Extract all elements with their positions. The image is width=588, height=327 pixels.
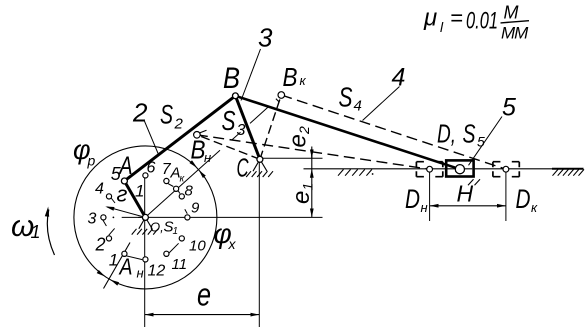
stub on position 9 bbox=[185, 209, 188, 214]
svg-text:l: l bbox=[440, 19, 444, 35]
leader for link 3 label bbox=[241, 49, 261, 101]
point D_n bbox=[427, 166, 433, 172]
svg-text:12: 12 bbox=[148, 263, 166, 280]
svg-text:6: 6 bbox=[147, 160, 156, 177]
svg-text:н: н bbox=[204, 150, 211, 165]
svg-text:н: н bbox=[137, 266, 144, 281]
extension line from D_n bbox=[429, 169, 431, 221]
dimension e1 between guide axis and O axis bbox=[311, 169, 313, 218]
extension line from D_k bbox=[505, 169, 507, 221]
svg-text:4: 4 bbox=[392, 64, 406, 92]
tie A_k to position 8 bbox=[178, 191, 180, 194]
dashed extreme link 4 position B_n-D_n bbox=[197, 135, 430, 169]
svg-text:е: е bbox=[197, 277, 211, 313]
label e2 rotated bbox=[285, 126, 313, 148]
ray O-A_k extended toward B_k (extreme position construction line) bbox=[147, 150, 221, 216]
svg-text:г: г bbox=[117, 182, 128, 207]
svg-text:р: р bbox=[87, 153, 96, 169]
svg-text:S: S bbox=[463, 119, 476, 149]
svg-text:4: 4 bbox=[354, 98, 362, 115]
fixed pivot support at C bbox=[253, 159, 260, 171]
ground hatching on guide left wall bbox=[338, 169, 344, 175]
radius r arrow from O bbox=[107, 207, 145, 218]
point D_k bbox=[503, 166, 509, 172]
svg-text:4: 4 bbox=[95, 181, 104, 198]
pin joint A (position 5) bbox=[121, 178, 127, 184]
omega_1 rotation direction arc bbox=[47, 210, 54, 256]
svg-text:0.01: 0.01 bbox=[466, 8, 498, 35]
pin joint D on slider bbox=[455, 165, 464, 174]
leader for link 4 label bbox=[363, 87, 400, 121]
phi_x arc arrowhead at A_n ray bbox=[110, 280, 119, 286]
svg-text:S: S bbox=[339, 82, 353, 113]
label e1 rotated bbox=[288, 183, 316, 204]
svg-text:х: х bbox=[228, 236, 237, 252]
svg-text:3: 3 bbox=[237, 122, 246, 139]
svg-text:7: 7 bbox=[162, 161, 172, 178]
stub on position 4 bbox=[110, 197, 115, 204]
tick on B_n bbox=[200, 130, 207, 133]
svg-text:В: В bbox=[283, 62, 298, 92]
svg-text:1: 1 bbox=[109, 251, 118, 270]
guide axis visible inside slider bbox=[448, 168, 473, 170]
svg-text:М: М bbox=[504, 3, 519, 23]
pin joint O bbox=[142, 214, 148, 220]
crank position circles 1-12 bbox=[185, 215, 190, 220]
dashed extreme link 4 position B_k-D_k bbox=[281, 95, 506, 169]
stub on position 3 bbox=[103, 220, 107, 226]
svg-text:А: А bbox=[118, 254, 133, 280]
svg-text:н: н bbox=[421, 200, 428, 215]
phi_p arc arrowhead at A_n ray bbox=[97, 270, 106, 277]
vertical extension line from C bbox=[258, 159, 260, 327]
svg-text:1: 1 bbox=[300, 183, 316, 191]
svg-text:1: 1 bbox=[135, 182, 144, 201]
svg-text:ММ: ММ bbox=[501, 24, 529, 43]
dashed square extreme slider position D_n bbox=[416, 162, 424, 168]
connecting rod link 4 B-D bbox=[235, 96, 460, 169]
horizontal axis line through O bbox=[122, 216, 141, 218]
horizontal line from C to e2 dimension bbox=[260, 157, 323, 159]
leader for link 2 label bbox=[144, 120, 159, 155]
svg-text:10: 10 bbox=[189, 238, 206, 255]
tie position 1 to 12 bbox=[125, 255, 143, 259]
dimension e2 arrow at C line bbox=[311, 149, 313, 158]
slider guide axis line bbox=[304, 168, 584, 170]
svg-text:μ: μ bbox=[423, 5, 437, 32]
dimension H between D_n and D_k bbox=[430, 205, 506, 207]
svg-text:D,: D, bbox=[437, 119, 456, 149]
svg-text:5: 5 bbox=[477, 134, 485, 150]
coupler link 2 A-B bbox=[124, 96, 235, 181]
svg-text:2: 2 bbox=[296, 126, 312, 135]
dimension e between O and C verticals bbox=[145, 314, 260, 316]
svg-text:8: 8 bbox=[185, 183, 194, 200]
svg-text:D: D bbox=[405, 184, 420, 214]
svg-text:С: С bbox=[237, 153, 249, 183]
svg-text:е: е bbox=[288, 191, 315, 204]
dashed square extreme slider position D_k bbox=[493, 162, 501, 168]
svg-text:к: к bbox=[531, 200, 538, 215]
dashed extreme link 3 position C-B_n bbox=[197, 135, 260, 160]
pin joint B bbox=[233, 93, 239, 99]
tie position 10 to 11 bbox=[169, 243, 179, 253]
svg-text:5: 5 bbox=[502, 94, 516, 122]
svg-text:е: е bbox=[285, 134, 312, 147]
slider 5 body bbox=[446, 160, 473, 176]
svg-text:3: 3 bbox=[88, 211, 97, 228]
stub on position 2 bbox=[109, 228, 115, 235]
fixed pivot support at O bbox=[139, 217, 146, 228]
svg-text:5: 5 bbox=[111, 164, 122, 184]
ground hatching on guide right wall bbox=[553, 169, 559, 175]
svg-text:D: D bbox=[516, 184, 531, 214]
svg-text:О,: О, bbox=[150, 220, 164, 235]
vertical axis line through O down to dimension e bbox=[144, 178, 146, 327]
svg-text:S: S bbox=[222, 105, 236, 136]
leader for link 5 label bbox=[469, 117, 503, 166]
tie position 7 to A_k bbox=[167, 183, 173, 186]
svg-text:В: В bbox=[223, 62, 240, 95]
svg-text:1: 1 bbox=[31, 222, 41, 242]
link 4 segment inside slider bbox=[446, 165, 460, 170]
svg-text:1: 1 bbox=[173, 226, 179, 237]
tick on B_k bbox=[276, 99, 279, 102]
crank link 1 O-A bbox=[124, 181, 145, 217]
phi_x arc arrowhead at A_k ray bbox=[199, 170, 206, 178]
svg-text:11: 11 bbox=[172, 256, 188, 273]
ray O-A_n slash through position 1 bbox=[104, 243, 131, 289]
point B_n bbox=[194, 132, 201, 139]
hatch marks below slider bbox=[468, 179, 474, 185]
crank position A_k bbox=[174, 186, 179, 191]
rocker link 3 B-C bbox=[235, 96, 260, 160]
svg-text:2: 2 bbox=[95, 235, 106, 255]
pin joint C bbox=[257, 156, 263, 162]
point B_k bbox=[278, 92, 285, 99]
svg-text:Н: Н bbox=[457, 181, 474, 207]
construction circle around crank centre O bbox=[74, 146, 217, 289]
svg-text:S: S bbox=[160, 100, 173, 130]
dashed extreme link 3 position C-B_k bbox=[260, 95, 281, 159]
svg-text:=: = bbox=[450, 6, 463, 31]
svg-text:3: 3 bbox=[258, 23, 273, 53]
phi_p arc arrowhead at A_k ray bbox=[189, 160, 197, 168]
svg-text:9: 9 bbox=[191, 200, 200, 217]
svg-text:2: 2 bbox=[174, 116, 184, 133]
svg-text:к: к bbox=[300, 73, 307, 88]
svg-text:2: 2 bbox=[132, 98, 148, 128]
